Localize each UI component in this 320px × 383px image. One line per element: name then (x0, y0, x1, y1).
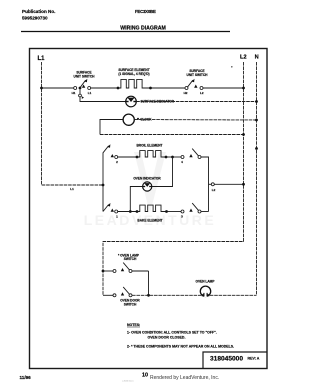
wire lamp switch row down to door switch row (148, 271, 150, 295)
switch surface unit switch right (H2/L2) (184, 69, 209, 95)
svg-text:UNIT SWITCH: UNIT SWITCH (74, 75, 96, 79)
node junction rows join (147, 294, 150, 297)
node junction N stray dot (255, 147, 258, 150)
wire clock left hook to L2 return (100, 120, 123, 135)
node junction left bus / L1 feed (102, 184, 105, 187)
bake element (136, 205, 168, 222)
oven circuit L2 tap terminal (209, 183, 245, 192)
svg-text:OVEN DOOR CLOSED.: OVEN DOOR CLOSED. (148, 336, 186, 340)
node junction broil path / oven indicator (171, 156, 174, 159)
node junction L2 / clock return (242, 133, 245, 136)
svg-text:(1 SIGNAL, 4 REQ'D): (1 SIGNAL, 4 REQ'D) (118, 72, 149, 76)
wire door switch to oven lamp (132, 294, 201, 296)
svg-text:L1: L1 (37, 56, 45, 62)
oven lamp (196, 280, 216, 298)
switch bake (bottom-right) (181, 203, 201, 218)
svg-text:UNIT SWITCH: UNIT SWITCH (187, 73, 209, 77)
svg-text:H2: H2 (184, 91, 188, 95)
wire top path to right bus (201, 157, 209, 212)
wire oven left bus (102, 153, 104, 212)
diagram frame (30, 49, 268, 369)
svg-text:Publication No.: Publication No. (22, 9, 55, 14)
wire L1 to surface unit switch (42, 87, 74, 89)
svg-text:L2: L2 (240, 55, 247, 61)
svg-text:5995290730: 5995290730 (22, 16, 48, 21)
svg-text:Rendered by LeadVenture, Inc.: Rendered by LeadVenture, Inc. (150, 375, 219, 381)
notes block (127, 323, 234, 349)
surface element (1 signal, 4 req'd) (117, 68, 152, 89)
oven indicator lamp (133, 177, 161, 192)
svg-text:10: 10 (142, 373, 148, 379)
switch oven door switch (103, 287, 140, 307)
broil element (136, 144, 168, 159)
wire L1 vertical bus and feed to oven section (42, 62, 104, 185)
svg-text:BAKE ELEMENT: BAKE ELEMENT (137, 219, 162, 223)
svg-text:c 2025 micro: c 2025 micro (122, 381, 134, 383)
svg-text:L1: L1 (70, 187, 74, 191)
stray mark (231, 66, 233, 68)
wire oven indicator right to broil path (152, 157, 173, 187)
svg-text:SWITCH: SWITCH (124, 257, 137, 261)
svg-text:318045000: 318045000 (210, 356, 243, 363)
wire switch to surface element (91, 87, 118, 89)
svg-text:NOTES:: NOTES: (127, 323, 140, 327)
pilot terminal P and wire to surface indicator (79, 89, 126, 101)
svg-text:OVEN LAMP: OVEN LAMP (196, 280, 216, 284)
svg-text:11/96: 11/96 (20, 375, 32, 380)
clock (123, 114, 152, 125)
node junction L1 top wire (40, 87, 43, 90)
svg-text:FEC3X0BE: FEC3X0BE (135, 9, 156, 14)
wire L2 vertical bus down to oven lamp rail (103, 62, 244, 296)
node junction lamp rail / lamp switch row (102, 270, 105, 273)
svg-text:L2: L2 (200, 91, 204, 95)
svg-text:WIRING DIAGRAM: WIRING DIAGRAM (120, 26, 166, 32)
wire oven indicator left to bake path (130, 187, 142, 212)
node junction N / indicator (255, 100, 258, 103)
wire to bake element (118, 211, 137, 213)
wire bake element to right switch (167, 211, 182, 213)
svg-text:L2: L2 (212, 188, 216, 192)
header publication number (22, 9, 55, 21)
wire broil element to right switch (166, 156, 181, 158)
switch broil (top-left) (103, 144, 118, 164)
wire indicator to N (136, 101, 256, 103)
part number box (203, 352, 267, 369)
svg-text:REV: A: REV: A (248, 357, 260, 361)
node junction bake path / indicator (129, 210, 132, 213)
wire element to right surface switch (151, 87, 186, 89)
wire oven lamp to N (210, 294, 257, 296)
svg-text:OVEN INDICATOR: OVEN INDICATOR (133, 177, 161, 181)
wire to broil element (118, 156, 137, 158)
wire switch to L2 bus (203, 87, 244, 89)
switch bake (bottom-left) (103, 203, 118, 219)
node junction N / clock (255, 119, 258, 122)
switch broil (top-right) (181, 149, 201, 164)
watermark LeadVenture (84, 152, 217, 228)
switch surface unit switch left (H1/L1/P) (72, 71, 96, 96)
svg-text:H1: H1 (72, 91, 76, 95)
wire N vertical bus (256, 62, 258, 295)
header rule (21, 31, 230, 33)
svg-text:N: N (255, 55, 259, 61)
wire clock return to L2 (100, 134, 244, 136)
surface indicator lamp (126, 96, 175, 107)
svg-text:2- * THESE COMPONENTS MAY NOT: 2- * THESE COMPONENTS MAY NOT APPEAR ON … (127, 345, 234, 349)
switch oven lamp switch (103, 253, 149, 272)
svg-text:1- OVEN CONDITION: ALL CONTROL: 1- OVEN CONDITION: ALL CONTROLS SET TO "… (127, 331, 217, 335)
node junction L2 top (242, 87, 245, 90)
svg-text:BROIL ELEMENT: BROIL ELEMENT (137, 144, 163, 148)
wire bottom path to right bus (201, 211, 209, 213)
svg-text:SWITCH: SWITCH (124, 302, 137, 306)
wire clock to N (134, 119, 256, 122)
svg-text:L1: L1 (88, 91, 92, 95)
